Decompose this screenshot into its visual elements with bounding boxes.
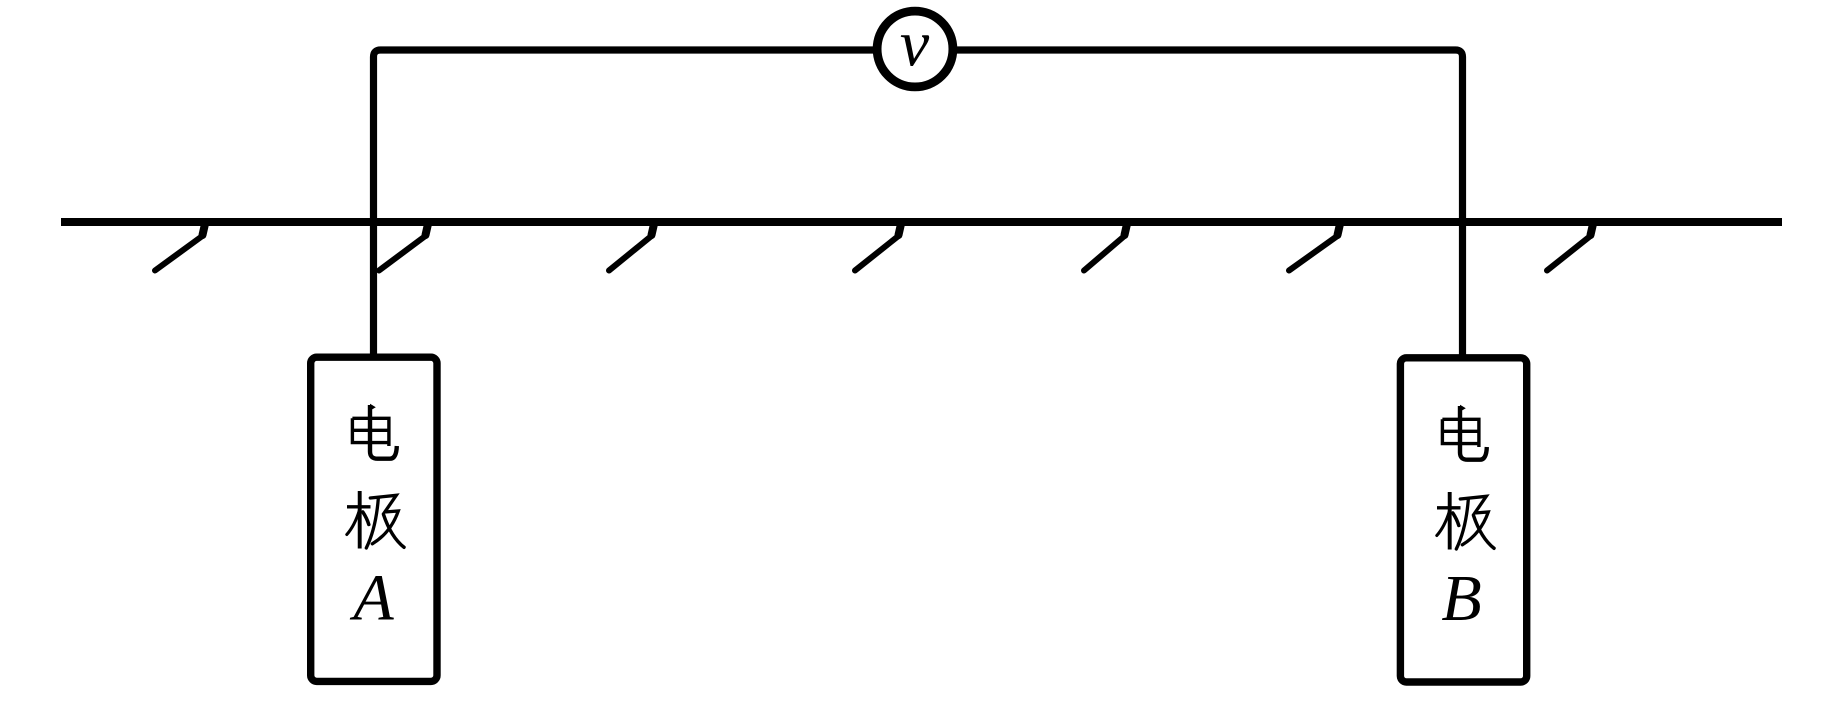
voltmeter label v bbox=[900, 8, 930, 81]
electrode B box bbox=[1400, 358, 1526, 682]
label B (electrode B) bbox=[1441, 562, 1481, 635]
earth hatch 3 bbox=[609, 224, 654, 271]
earth hatch 7 bbox=[1547, 224, 1593, 271]
earth hatch 1 bbox=[155, 224, 205, 271]
label 极 (electrode B) bbox=[1437, 492, 1494, 550]
earth hatch 5 bbox=[1084, 224, 1127, 271]
label A (electrode A) bbox=[349, 562, 394, 635]
svg-text:B: B bbox=[1441, 562, 1481, 635]
electrode A box bbox=[311, 357, 437, 681]
ground line (earth surface) bbox=[61, 218, 1782, 226]
label 极 (electrode A) bbox=[347, 491, 404, 549]
earth hatch 4 bbox=[855, 224, 901, 271]
voltmeter U1 (circle) bbox=[877, 11, 953, 87]
svg-text:v: v bbox=[900, 8, 930, 81]
label 电 (electrode A) bbox=[352, 404, 396, 459]
label 电 (electrode B) bbox=[1442, 405, 1486, 460]
earth hatch 2 bbox=[379, 224, 428, 271]
wire: top loop from electrode A up, across, down to electrode B bbox=[374, 50, 1463, 357]
earth hatch 6 bbox=[1289, 224, 1340, 271]
svg-text:A: A bbox=[349, 562, 394, 635]
